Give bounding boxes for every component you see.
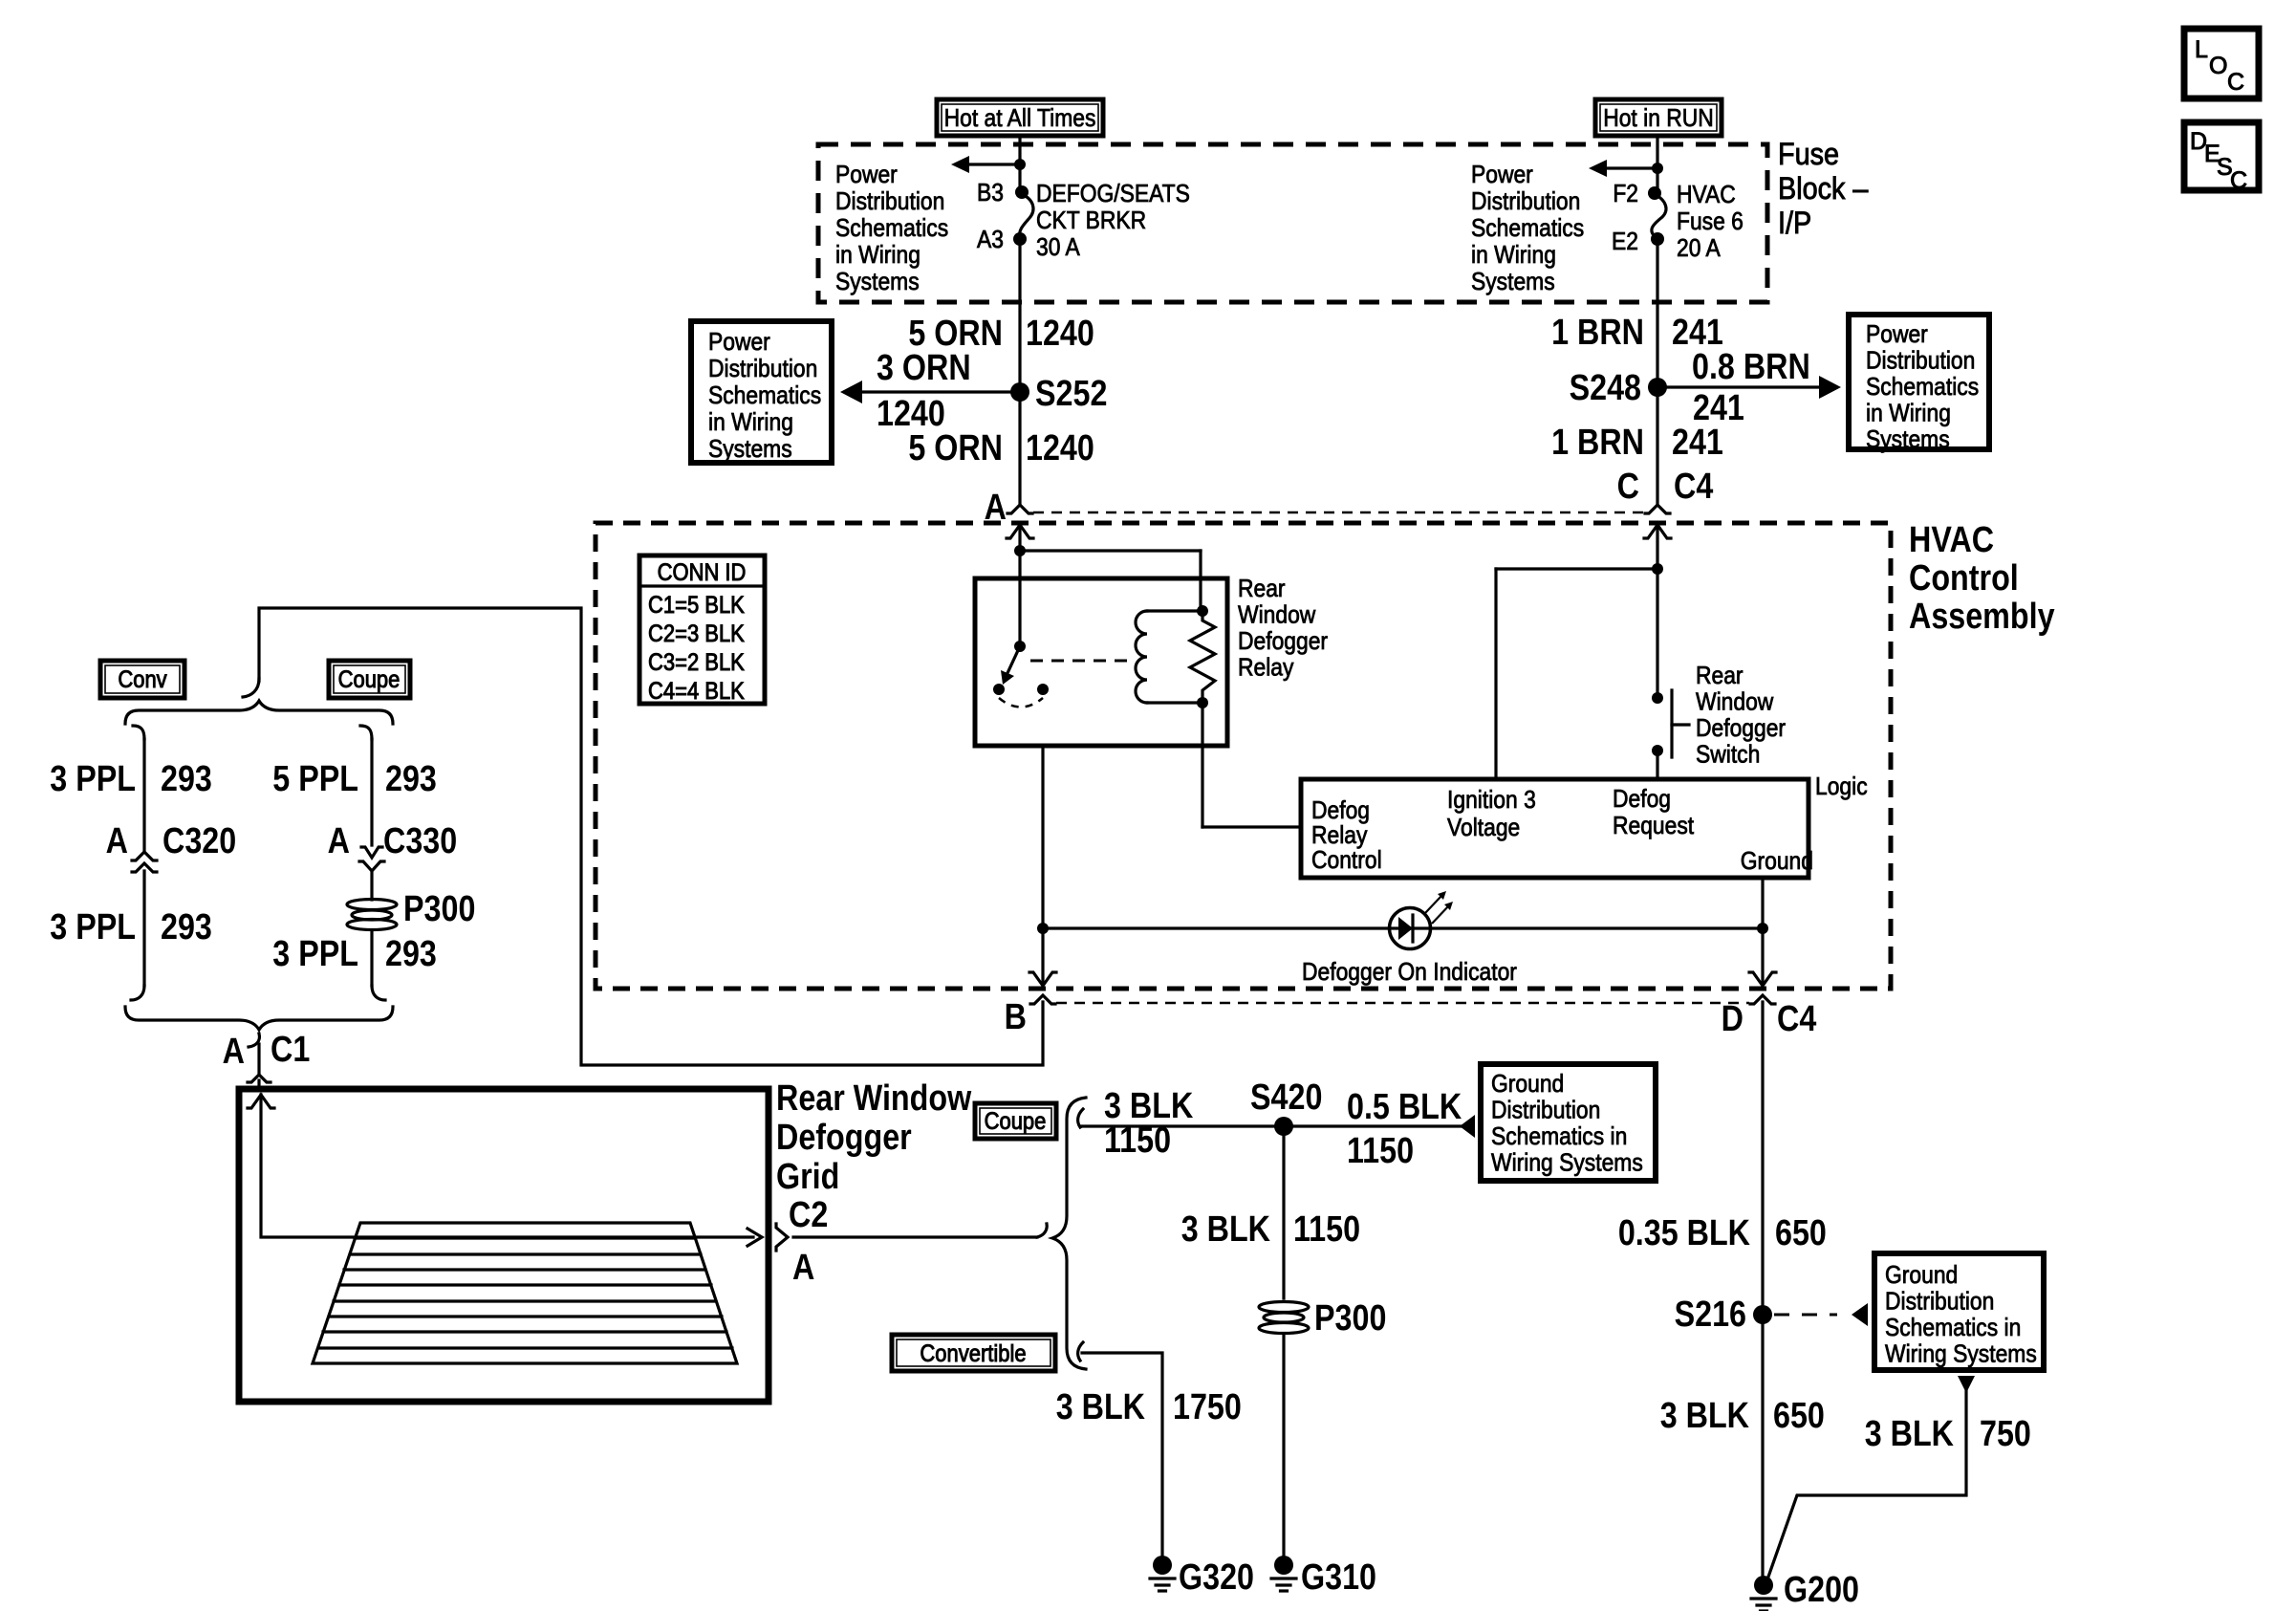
wire label 1240 (lower left) xyxy=(1026,428,1094,468)
svg-text:P300: P300 xyxy=(403,889,475,929)
wire: feed over to relay winding xyxy=(1020,549,1201,552)
svg-text:5 PPL: 5 PPL xyxy=(272,759,358,799)
svg-text:Assembly: Assembly xyxy=(1909,597,2055,637)
connector pin B xyxy=(1030,995,1055,1004)
wire label 3 BLK (650) xyxy=(1660,1396,1750,1436)
svg-text:E2: E2 xyxy=(1612,229,1638,256)
ground G310 xyxy=(1274,1556,1293,1575)
svg-text:C: C xyxy=(2230,167,2247,194)
svg-text:C1=5 BLK: C1=5 BLK xyxy=(648,592,745,619)
svg-text:A: A xyxy=(106,821,128,861)
wire label 293 (coupe upper) xyxy=(385,759,437,799)
dashed wire+arrow: S216 to ground distribution box xyxy=(1774,1314,1837,1317)
wire: C1 into grid box xyxy=(257,1080,260,1089)
grommet P300 (bottom) xyxy=(1259,1302,1309,1334)
hook: conv branch bottom xyxy=(131,986,144,1000)
svg-text:Defog: Defog xyxy=(1613,786,1671,814)
svg-text:G310: G310 xyxy=(1301,1557,1376,1598)
svg-text:Fuse 6: Fuse 6 xyxy=(1677,208,1744,236)
arrow: grid return wire entering box xyxy=(248,1095,274,1108)
svg-text:C4=4 BLK: C4=4 BLK xyxy=(648,678,745,705)
wire label 3 PPL (coupe lower) xyxy=(272,934,358,974)
wire label 1750 xyxy=(1173,1387,1242,1427)
connector name C4 (bottom) xyxy=(1777,999,1817,1039)
svg-text:Schematics: Schematics xyxy=(1866,374,1979,402)
connector C320 (double chevron) xyxy=(132,852,157,860)
LED defogger on indicator xyxy=(1390,908,1431,949)
wire: ignition 3 voltage to logic xyxy=(1496,567,1657,570)
relay winding (coil) xyxy=(1136,611,1147,703)
junction dot: relay feed split xyxy=(1014,545,1026,556)
connector pin A (fuse block to HVAC) xyxy=(1007,505,1032,513)
rear window defogger switch contact (top) xyxy=(1652,692,1663,704)
logic box xyxy=(1301,779,1809,878)
wire: C330 to P300 xyxy=(370,871,373,900)
svg-text:293: 293 xyxy=(385,759,437,799)
text: Defogger On Indicator xyxy=(1302,959,1517,987)
wire: hot at all times feed xyxy=(1018,136,1021,192)
svg-text:30 A: 30 A xyxy=(1036,234,1080,262)
svg-text:Block –: Block – xyxy=(1778,172,1868,207)
connector name C1 xyxy=(271,1030,310,1070)
svg-text:Wiring Systems: Wiring Systems xyxy=(1491,1149,1643,1177)
svg-text:Window: Window xyxy=(1238,601,1316,629)
svg-text:Rear: Rear xyxy=(1238,576,1286,603)
svg-text:C1: C1 xyxy=(271,1030,310,1070)
svg-text:A: A xyxy=(792,1248,814,1288)
wire: conv branch upper (3 PPL 293) xyxy=(142,739,145,850)
wire+arrow: feed to power distribution (right) xyxy=(1607,166,1657,169)
svg-text:Defog: Defog xyxy=(1311,797,1370,825)
svg-text:Systems: Systems xyxy=(1471,269,1555,296)
switch actuator bar xyxy=(1670,690,1673,757)
terminal dot B3 xyxy=(1015,185,1029,199)
wire label 3 PPL (conv lower) xyxy=(50,907,136,947)
svg-text:D: D xyxy=(1722,999,1744,1039)
wire+arrow: S420 to ground distribution (0.5 BLK 1150) xyxy=(1284,1124,1462,1127)
svg-text:3 ORN: 3 ORN xyxy=(877,348,971,388)
svg-text:B3: B3 xyxy=(977,180,1004,207)
svg-text:0.8 BRN: 0.8 BRN xyxy=(1692,347,1810,387)
wire: defogger on indicator line xyxy=(1043,926,1763,929)
grommet P300 (left) xyxy=(347,900,397,930)
wire: conv branch lower (3 PPL 293) xyxy=(142,871,145,986)
wire+arrow: ground distribution to G200 (3 BLK 750) xyxy=(1958,1376,1975,1393)
wire+arrow: S248 to power distribution box (0.8 BRN 241) xyxy=(1657,385,1822,388)
svg-text:Relay: Relay xyxy=(1311,822,1368,850)
component name: Rear Window Defogger Grid xyxy=(776,1078,972,1119)
wire: P300 to bottom hook (3 PPL 293) xyxy=(370,930,373,986)
text: Logic xyxy=(1815,773,1868,801)
arrow: pin C wire entering HVAC assembly xyxy=(1644,525,1671,538)
wire label 1240 (upper left) xyxy=(1026,314,1094,354)
junction dot: LED line at ground wire xyxy=(1757,923,1768,934)
svg-text:in Wiring: in Wiring xyxy=(1866,400,1951,427)
wire label 1150 (right) xyxy=(1347,1131,1414,1171)
svg-text:650: 650 xyxy=(1773,1396,1825,1436)
svg-text:C320: C320 xyxy=(162,821,236,861)
text: DEFOG/SEATS CKT BRKR 30 A xyxy=(1036,181,1190,208)
svg-text:Defogger On Indicator: Defogger On Indicator xyxy=(1302,959,1517,987)
relay contact dot (left) xyxy=(993,684,1005,695)
hook: coupe branch top xyxy=(360,726,372,739)
text: HVAC Fuse 6 20 A xyxy=(1677,182,1736,209)
wire label 3 BLK (coupe) xyxy=(1104,1086,1194,1126)
box: Power Distribution Schematics in Wiring Systems (right) xyxy=(1849,315,1989,449)
svg-text:C2: C2 xyxy=(789,1195,828,1235)
svg-text:Schematics in: Schematics in xyxy=(1491,1123,1627,1151)
splice S248 xyxy=(1648,378,1667,397)
svg-text:S252: S252 xyxy=(1035,374,1107,414)
svg-text:Conv: Conv xyxy=(118,666,167,693)
splice name S420 xyxy=(1250,1078,1322,1118)
svg-text:S216: S216 xyxy=(1675,1295,1746,1335)
pin label A3 xyxy=(977,227,1004,254)
model split brace (Coupe / Convertible) xyxy=(1052,1098,1086,1369)
svg-text:0.5 BLK: 0.5 BLK xyxy=(1347,1087,1462,1127)
wire label 5 PPL (coupe) xyxy=(272,759,358,799)
svg-text:3 PPL: 3 PPL xyxy=(50,907,136,947)
svg-text:Rear: Rear xyxy=(1696,663,1744,690)
wire: switch to defog request pin xyxy=(1656,751,1658,779)
wire label 1 BRN (upper) xyxy=(1551,313,1644,353)
wire: coupe branch upper (5 PPL 293) xyxy=(370,739,373,845)
hook: wire end above split brace xyxy=(243,679,259,697)
pin letter A (C330) xyxy=(328,821,350,861)
svg-text:L: L xyxy=(2195,36,2208,63)
svg-text:Ignition 3: Ignition 3 xyxy=(1447,787,1536,815)
wire label 5 ORN (lower left) xyxy=(908,428,1003,468)
wire label 3 BLK (S420 down) xyxy=(1181,1209,1271,1250)
junction dot: winding bottom xyxy=(1197,697,1208,708)
grommet name P300 (left) xyxy=(403,889,475,929)
junction dot: feed tap xyxy=(1014,159,1026,170)
wire: defog relay control (winding to logic) xyxy=(1201,703,1203,827)
svg-text:0.35 BLK: 0.35 BLK xyxy=(1618,1213,1751,1253)
splice name S252 xyxy=(1035,374,1107,414)
svg-text:1240: 1240 xyxy=(1026,314,1094,354)
svg-text:Coupe: Coupe xyxy=(985,1108,1047,1135)
box: Ground Distribution Schematics in Wiring Systems (middle) xyxy=(1481,1064,1656,1181)
wire label 750 xyxy=(1980,1414,2031,1454)
svg-text:3 BLK: 3 BLK xyxy=(1660,1396,1750,1436)
ground name G200 xyxy=(1784,1570,1859,1610)
ground G200 xyxy=(1754,1576,1773,1595)
svg-text:3 PPL: 3 PPL xyxy=(50,759,136,799)
wire label 3 BLK (750) xyxy=(1865,1414,1955,1454)
svg-text:Convertible: Convertible xyxy=(920,1340,1026,1367)
svg-text:in Wiring: in Wiring xyxy=(708,409,793,437)
CONN ID table xyxy=(639,555,765,704)
svg-text:Coupe: Coupe xyxy=(338,666,401,693)
svg-text:Ground: Ground xyxy=(1491,1071,1564,1099)
ground name G320 xyxy=(1179,1557,1254,1598)
svg-text:Window: Window xyxy=(1696,688,1774,716)
text inside left power distribution box xyxy=(708,329,770,357)
svg-text:C: C xyxy=(1617,467,1639,507)
connector pin D / C4 xyxy=(1750,995,1775,1004)
svg-text:Schematics: Schematics xyxy=(835,215,948,243)
wire label 241 (upper) xyxy=(1672,313,1723,353)
pin letter A (C1) xyxy=(223,1032,245,1072)
connector C2 chevron xyxy=(776,1224,788,1251)
pin letter D xyxy=(1722,999,1744,1039)
svg-text:Defogger: Defogger xyxy=(1238,628,1328,656)
svg-text:B: B xyxy=(1005,997,1027,1037)
thin dashed connector line between pins B and D xyxy=(1056,1002,1749,1005)
svg-text:3 PPL: 3 PPL xyxy=(272,934,358,974)
hook: conv branch top xyxy=(133,726,144,739)
svg-text:Ground: Ground xyxy=(1885,1262,1958,1290)
arrow: pin B wire leaving HVAC assembly xyxy=(1029,972,1056,986)
svg-text:I/P: I/P xyxy=(1778,207,1811,241)
svg-text:C4: C4 xyxy=(1777,999,1817,1039)
arrow: grid output toward C2 xyxy=(747,1229,762,1246)
grommet name P300 (bottom) xyxy=(1314,1298,1386,1339)
rear window defogger grid box xyxy=(239,1089,769,1402)
svg-text:in Wiring: in Wiring xyxy=(835,242,921,270)
pin label B3 xyxy=(977,180,1004,207)
connector A / C1 xyxy=(249,1034,259,1047)
svg-text:C4: C4 xyxy=(1674,467,1714,507)
svg-text:3 BLK: 3 BLK xyxy=(1865,1414,1955,1454)
wire: hot in RUN feed xyxy=(1656,136,1658,193)
svg-text:Power: Power xyxy=(1471,162,1533,189)
wire label 650 (lower) xyxy=(1773,1396,1825,1436)
svg-text:Schematics in: Schematics in xyxy=(1885,1315,2021,1342)
svg-text:Ground: Ground xyxy=(1741,848,1813,876)
svg-text:G320: G320 xyxy=(1179,1557,1254,1598)
terminal dot E2 xyxy=(1651,232,1664,246)
wire label 293 (coupe lower) xyxy=(385,934,437,974)
splice S252 xyxy=(1010,382,1029,402)
ground name G310 xyxy=(1301,1557,1376,1598)
svg-text:Distribution: Distribution xyxy=(835,188,944,216)
relay switch arm with arrowhead xyxy=(1007,646,1020,673)
svg-text:20 A: 20 A xyxy=(1677,235,1721,263)
svg-text:5 ORN: 5 ORN xyxy=(908,428,1003,468)
wire: E2 to S248 (1 BRN 241) xyxy=(1656,239,1658,504)
svg-text:Defogger: Defogger xyxy=(776,1118,912,1158)
terminal dot A3 xyxy=(1013,232,1027,246)
connector name C320 xyxy=(162,821,236,861)
box: Power Distribution Schematics in Wiring Systems (left) xyxy=(691,321,832,463)
component name: HVAC Control Assembly xyxy=(1909,520,1994,560)
svg-text:Distribution: Distribution xyxy=(1491,1097,1600,1124)
pin letter C xyxy=(1617,467,1639,507)
dashed travel arc between contacts xyxy=(999,698,1043,708)
component name: Fuse Block - I/P xyxy=(1778,138,1839,172)
wire label 1 BRN (lower) xyxy=(1551,423,1644,463)
LOC reference box xyxy=(2184,29,2259,98)
component name: Rear Window Defogger Switch xyxy=(1696,663,1744,690)
svg-text:Systems: Systems xyxy=(708,436,792,464)
relay resistor (zigzag) xyxy=(1190,611,1215,703)
svg-text:A3: A3 xyxy=(977,227,1004,254)
arrow: pin A wire entering HVAC assembly xyxy=(1007,525,1033,538)
svg-text:G200: G200 xyxy=(1784,1570,1859,1610)
dashed mechanical link to winding xyxy=(1030,660,1133,663)
wire: S420 down to P300 (3 BLK 1150) xyxy=(1282,1126,1285,1298)
hook: convertible branch start xyxy=(1078,1342,1083,1361)
component name: Rear Window Defogger Relay xyxy=(1238,576,1286,603)
pin letter B xyxy=(1005,997,1027,1037)
relay switch pivot dot xyxy=(1014,641,1026,652)
connector name C4 (top) xyxy=(1674,467,1714,507)
relay box: Rear Window Defogger Relay xyxy=(975,578,1227,746)
wire label 1150 (coupe) xyxy=(1104,1121,1171,1161)
wire: C2 to model split brace xyxy=(793,1235,1037,1238)
svg-text:CONN ID: CONN ID xyxy=(658,559,747,586)
svg-text:CKT BRKR: CKT BRKR xyxy=(1036,207,1146,235)
svg-text:Grid: Grid xyxy=(776,1157,839,1197)
svg-text:Control: Control xyxy=(1311,847,1382,875)
svg-text:A: A xyxy=(223,1032,245,1072)
svg-text:3 BLK: 3 BLK xyxy=(1056,1387,1146,1427)
svg-text:Distribution: Distribution xyxy=(1866,347,1975,375)
HVAC Control Assembly dashed box xyxy=(596,523,1891,989)
wire label 3 PPL (conv upper) xyxy=(50,759,136,799)
DESC reference box xyxy=(2184,122,2259,190)
hook: coupe branch bottom xyxy=(372,986,385,1000)
circuit breaker curve xyxy=(1020,194,1033,238)
svg-text:Relay: Relay xyxy=(1238,654,1294,682)
splice name S216 xyxy=(1675,1295,1746,1335)
relay contact dot (right) xyxy=(1037,684,1049,695)
fuse block I/P dashed box xyxy=(818,144,1767,302)
thin dashed connector line C4 between pins A and C xyxy=(1033,512,1644,514)
wire label 650 (upper) xyxy=(1775,1213,1827,1253)
svg-text:S248: S248 xyxy=(1570,368,1641,408)
label box: Conv xyxy=(100,661,184,698)
svg-text:F2: F2 xyxy=(1613,181,1638,208)
pin label: Defog Request xyxy=(1613,786,1671,814)
svg-text:C330: C330 xyxy=(383,821,457,861)
svg-text:Power: Power xyxy=(835,162,898,189)
connector name C2 xyxy=(789,1195,828,1235)
svg-text:Control: Control xyxy=(1909,558,2019,599)
svg-text:750: 750 xyxy=(1980,1414,2031,1454)
svg-text:1150: 1150 xyxy=(1293,1209,1360,1250)
svg-text:A: A xyxy=(328,821,350,861)
svg-text:C2=3 BLK: C2=3 BLK xyxy=(648,620,745,647)
splice S420 xyxy=(1274,1117,1293,1136)
pin letter A xyxy=(985,488,1007,528)
svg-text:S420: S420 xyxy=(1250,1078,1322,1118)
svg-text:Distribution: Distribution xyxy=(1885,1288,1994,1316)
svg-text:Voltage: Voltage xyxy=(1447,815,1520,842)
junction dot: LED line at switch wire xyxy=(1037,923,1049,934)
svg-text:1150: 1150 xyxy=(1347,1131,1414,1171)
svg-text:293: 293 xyxy=(385,934,437,974)
wire label 1150 (S420 down) xyxy=(1293,1209,1360,1250)
wire: A3 to S252 (5 ORN 1240) xyxy=(1018,239,1021,504)
connector C330 (arrow into chevron) xyxy=(361,847,382,858)
wire label 3 ORN xyxy=(877,348,971,388)
merge brace (bottom) xyxy=(125,1007,393,1030)
wire label 5 ORN (upper left) xyxy=(908,314,1003,354)
svg-text:Wiring Systems: Wiring Systems xyxy=(1885,1340,2037,1368)
label box: Coupe (bottom) xyxy=(975,1103,1056,1139)
label box: Coupe (top) xyxy=(329,661,410,698)
box: Ground Distribution Schematics in Wiring Systems (bottom right) xyxy=(1874,1253,2044,1370)
svg-text:Distribution: Distribution xyxy=(708,356,817,383)
wire label 241 (arrow right) xyxy=(1693,388,1744,428)
svg-text:Hot in RUN: Hot in RUN xyxy=(1603,105,1714,133)
pin label E2 xyxy=(1612,229,1638,256)
wire: P300 to G310 xyxy=(1282,1334,1285,1557)
svg-text:1240: 1240 xyxy=(1026,428,1094,468)
svg-text:Schematics: Schematics xyxy=(1471,215,1584,243)
label box: Hot at All Times xyxy=(937,99,1103,136)
label box: Hot in RUN xyxy=(1595,99,1722,136)
svg-text:Systems: Systems xyxy=(1866,426,1950,454)
wire: convertible branch to G320 (3 BLK 1750) xyxy=(1082,1353,1162,1557)
svg-text:Schematics: Schematics xyxy=(708,382,821,410)
svg-text:1 BRN: 1 BRN xyxy=(1551,423,1644,463)
junction dot: winding top xyxy=(1197,605,1208,617)
wire+arrow: feed to power distribution (left) xyxy=(968,163,1020,165)
svg-text:Hot at All Times: Hot at All Times xyxy=(944,105,1096,133)
wire: coupe branch to S420 (3 BLK 1150) xyxy=(1082,1124,1284,1127)
label box: Convertible xyxy=(892,1335,1055,1371)
wire: relay switch down to pin B xyxy=(1041,746,1044,986)
junction dot: feed tap (right) xyxy=(1652,163,1663,174)
svg-text:O: O xyxy=(2209,53,2227,79)
wire label 0.8 BRN xyxy=(1692,347,1810,387)
svg-text:C3=2 BLK: C3=2 BLK xyxy=(648,649,745,676)
svg-text:DEFOG/SEATS: DEFOG/SEATS xyxy=(1036,181,1190,208)
svg-text:Power: Power xyxy=(708,329,770,357)
wire: grid feed L inside box xyxy=(261,1095,753,1237)
junction dot: ignition 3 voltage tap xyxy=(1652,563,1663,575)
svg-text:241: 241 xyxy=(1672,423,1723,463)
svg-text:Fuse: Fuse xyxy=(1778,138,1839,172)
svg-text:1750: 1750 xyxy=(1173,1387,1242,1427)
fuse curve xyxy=(1652,194,1666,238)
svg-text:Defogger: Defogger xyxy=(1696,715,1786,743)
wire: pin D to S216 (0.35 BLK 650) xyxy=(1761,1002,1764,1576)
LED light rays xyxy=(1425,895,1442,913)
rear window defogger switch contact (bottom) xyxy=(1652,745,1663,756)
wire label 241 (lower) xyxy=(1672,423,1723,463)
hook: wire end at brace xyxy=(1037,1224,1047,1237)
svg-text:in Wiring: in Wiring xyxy=(1471,242,1556,270)
text: Power Distribution Schematics in Wiring Systems (fuse block left) xyxy=(835,162,898,189)
connector name C330 xyxy=(383,821,457,861)
hook: coupe ground branch start xyxy=(1078,1109,1083,1127)
winding bottom rail xyxy=(1147,701,1202,704)
wire label 1240 (arrow) xyxy=(877,394,945,434)
pin label F2 xyxy=(1613,181,1638,208)
arrow: pin D wire leaving HVAC assembly xyxy=(1749,972,1776,986)
svg-text:P300: P300 xyxy=(1314,1298,1386,1339)
svg-text:C: C xyxy=(2227,69,2244,96)
wire: ground pin down from logic xyxy=(1761,878,1764,986)
pin letter A (C320) xyxy=(106,821,128,861)
ground G320 xyxy=(1153,1556,1172,1575)
wire label 3 BLK (convertible) xyxy=(1056,1387,1146,1427)
svg-text:Switch: Switch xyxy=(1696,741,1760,769)
pin label: Defog Relay Control xyxy=(1311,797,1370,825)
svg-text:Request: Request xyxy=(1613,813,1694,840)
pin label: Ground xyxy=(1741,848,1813,876)
winding top rail xyxy=(1147,609,1202,612)
wire label 293 (conv lower) xyxy=(161,907,212,947)
wire: pin B to rear window defogger grid feed loop xyxy=(259,608,1043,1065)
terminal dot F2 xyxy=(1648,186,1661,200)
wire+arrow: S252 to power distribution box (3 ORN 1240) xyxy=(859,390,1020,393)
